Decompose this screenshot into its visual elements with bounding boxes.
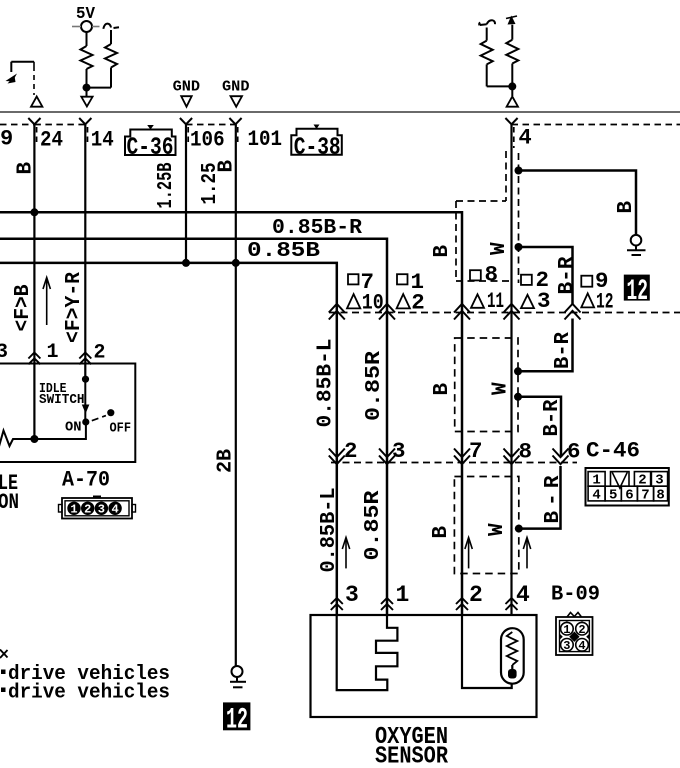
svg-text:0.85B-R: 0.85B-R	[272, 217, 362, 240]
svg-text:B: B	[615, 201, 638, 214]
svg-text:12: 12	[627, 275, 649, 309]
svg-text:C-36: C-36	[127, 133, 174, 162]
svg-text:101: 101	[248, 127, 283, 152]
svg-text:<F>Y-R: <F>Y-R	[63, 272, 86, 343]
svg-text:C-38: C-38	[294, 133, 341, 162]
svg-text:1.25B: 1.25B	[155, 162, 178, 208]
svg-text:W: W	[488, 242, 511, 255]
svg-text:3: 3	[345, 582, 359, 608]
svg-text:3: 3	[537, 288, 551, 314]
svg-text:GND: GND	[222, 80, 250, 96]
svg-text:1: 1	[70, 503, 77, 517]
svg-text:5: 5	[609, 488, 617, 504]
svg-text:A-70: A-70	[62, 468, 110, 493]
svg-text:0.85B: 0.85B	[247, 240, 320, 263]
svg-text:2B: 2B	[215, 449, 238, 473]
svg-text:3: 3	[563, 639, 570, 653]
svg-text:SENSOR: SENSOR	[375, 744, 448, 768]
svg-text:4: 4	[578, 639, 585, 653]
svg-text:OFF: OFF	[110, 421, 132, 437]
svg-text:3: 3	[392, 438, 406, 464]
svg-text:8: 8	[519, 439, 533, 465]
svg-text:8: 8	[485, 262, 499, 288]
svg-text:24: 24	[40, 128, 63, 153]
svg-text:<F>B: <F>B	[12, 284, 35, 331]
svg-text:1: 1	[47, 341, 59, 364]
svg-text:106: 106	[190, 128, 225, 153]
svg-text:2: 2	[84, 503, 91, 517]
svg-text:SWITCH: SWITCH	[39, 393, 85, 408]
svg-text:8: 8	[656, 488, 664, 504]
svg-text:3: 3	[0, 341, 8, 364]
svg-text:B-09: B-09	[551, 584, 600, 607]
svg-text:11: 11	[487, 288, 504, 314]
svg-text:B: B	[431, 383, 454, 396]
svg-text:W: W	[490, 382, 513, 395]
svg-text:2: 2	[411, 290, 425, 316]
svg-text:B-R: B-R	[556, 256, 579, 294]
svg-text:14: 14	[91, 128, 114, 153]
svg-text:B: B	[431, 245, 454, 258]
svg-text:3: 3	[98, 503, 105, 517]
svg-text:6: 6	[567, 439, 581, 465]
svg-text:B-R: B-R	[541, 399, 564, 436]
svg-text:5V: 5V	[76, 5, 96, 24]
svg-text:4: 4	[519, 126, 532, 151]
svg-text:9: 9	[0, 127, 13, 152]
svg-text:6: 6	[625, 488, 633, 504]
svg-text:2: 2	[94, 342, 106, 365]
svg-text:B: B	[430, 526, 453, 539]
svg-text:2: 2	[578, 623, 585, 637]
svg-text:1: 1	[563, 623, 570, 637]
svg-text:4: 4	[592, 488, 600, 504]
svg-text:ON: ON	[0, 490, 19, 515]
svg-text:B-R: B-R	[552, 332, 575, 369]
svg-text:B-R: B-R	[542, 475, 565, 523]
svg-text:3: 3	[655, 473, 663, 489]
svg-text:0.85R: 0.85R	[362, 490, 385, 560]
svg-text:7: 7	[469, 438, 483, 464]
svg-text:2: 2	[344, 438, 358, 464]
svg-text:W: W	[486, 523, 509, 536]
svg-text:GND: GND	[173, 80, 201, 96]
svg-text:2: 2	[469, 582, 483, 608]
svg-text:C-46: C-46	[586, 438, 640, 464]
svg-text:0.85R: 0.85R	[363, 351, 386, 421]
svg-text:2: 2	[638, 473, 646, 489]
svg-text:4: 4	[516, 582, 530, 608]
svg-text:B: B	[216, 160, 239, 173]
svg-text:ON: ON	[65, 420, 82, 436]
svg-text:1: 1	[396, 582, 410, 608]
svg-text:B: B	[15, 162, 38, 175]
svg-text:1: 1	[592, 473, 600, 489]
svg-text:0.85B-L: 0.85B-L	[318, 488, 341, 573]
svg-text:12: 12	[596, 289, 614, 315]
svg-text:4: 4	[111, 503, 118, 517]
svg-text:7: 7	[641, 488, 649, 504]
svg-text:12: 12	[226, 703, 248, 737]
svg-text:drive vehicles: drive vehicles	[8, 681, 170, 704]
svg-text:0.85B-L: 0.85B-L	[315, 339, 338, 428]
